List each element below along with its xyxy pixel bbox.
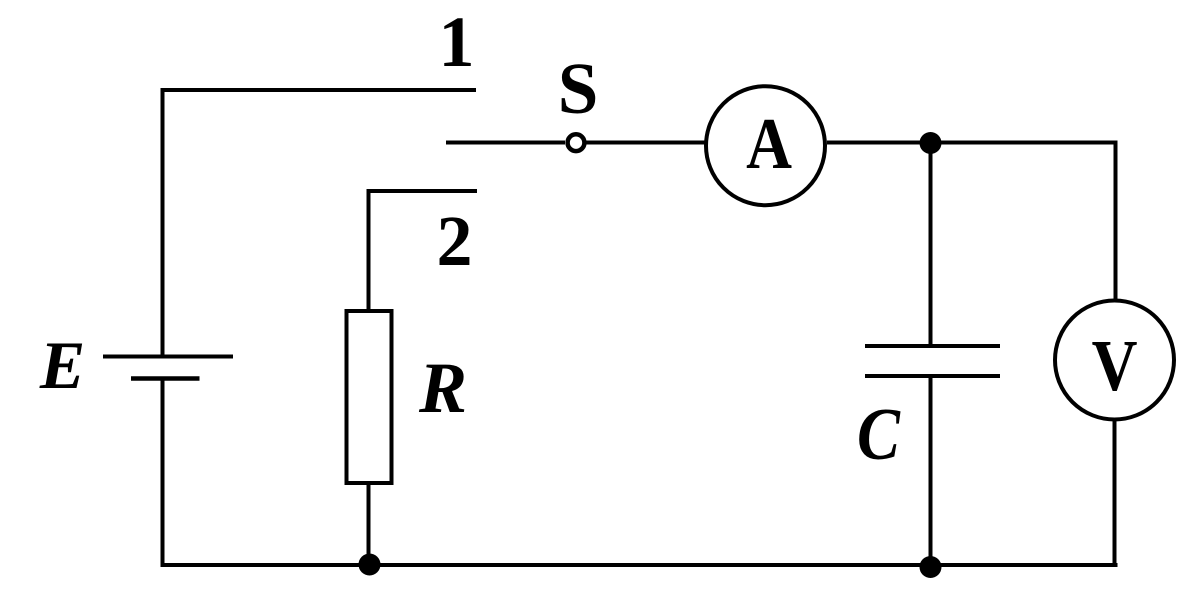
junction: node at ammeter output / capacitor top [920,132,942,154]
wire: bottom rail [161,563,1118,567]
wire: ammeter to node A and down right side to voltmeter [827,143,1116,301]
wire: capacitor bottom lead [929,376,933,565]
battery E short plate [131,376,200,381]
resistor R body [347,311,392,483]
wire: voltmeter bottom lead to bottom rail [1113,420,1117,566]
junction: capacitor to bottom rail [920,556,942,578]
svg-text:A: A [746,103,792,184]
svg-text:1: 1 [439,2,475,82]
label C [857,394,901,476]
svg-text:E: E [39,327,85,403]
wire: switch to ammeter [587,141,706,145]
label A (ammeter) [746,103,792,184]
wire: node down to capacitor top plate [929,143,933,346]
ammeter A body [706,86,825,205]
svg-text:R: R [418,348,467,428]
label V (voltmeter) [1092,325,1138,406]
wire: switch contact 1 to battery positive (top-left L) [163,90,477,356]
switch S pivot contact (open circle) [568,134,585,151]
svg-text:V: V [1092,325,1138,406]
voltmeter V body [1055,301,1174,420]
svg-text:S: S [558,48,599,129]
svg-text:2: 2 [437,201,473,281]
svg-text:C: C [857,394,901,476]
wire: switch contact 2 branch to resistor top [369,191,478,309]
junction: resistor to bottom rail [359,554,381,576]
capacitor C bottom plate [865,374,1000,378]
wire: switch pole blade [446,141,565,145]
battery E long plate [103,355,233,359]
wire: battery negative down to bottom rail [161,379,165,564]
wire: resistor bottom lead [367,485,371,565]
capacitor C top plate [865,344,1000,348]
